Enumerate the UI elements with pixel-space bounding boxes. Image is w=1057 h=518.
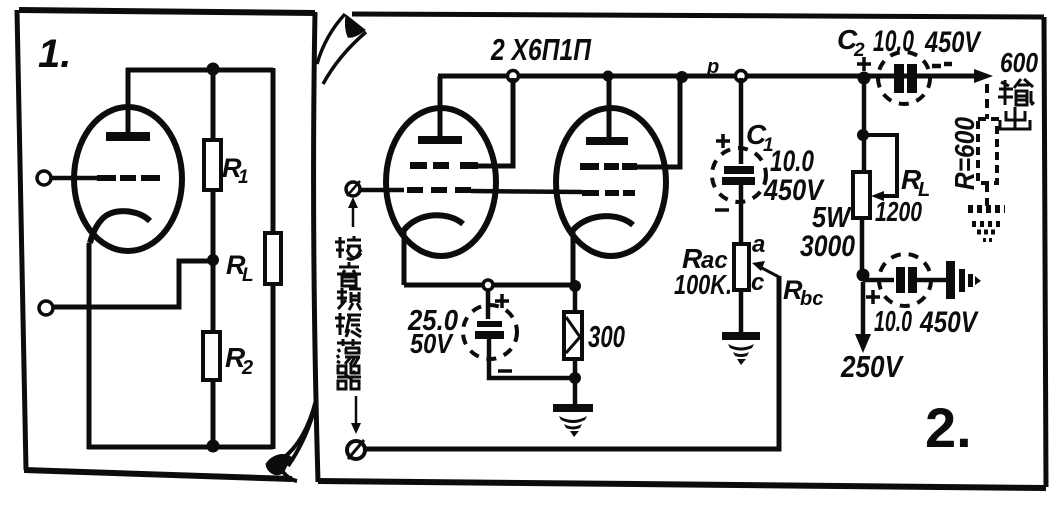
svg-text:p: p xyxy=(706,56,719,78)
tube U2 grid dashes xyxy=(582,190,635,196)
tube V1 grid dashes xyxy=(97,175,160,181)
svg-text:10.0: 10.0 xyxy=(874,306,912,338)
resistor RL (panel1) xyxy=(265,233,281,284)
wire U1 screen lead xyxy=(476,78,513,166)
wire R1 column xyxy=(211,70,216,447)
wire U2 screen lead xyxy=(636,79,680,167)
wire U1 plate lead xyxy=(438,76,443,136)
potentiometer Rac xyxy=(734,244,749,290)
svg-text:10.0: 10.0 xyxy=(873,25,914,58)
CURLBOTTOM xyxy=(266,400,316,481)
wire U2 plate lead xyxy=(607,76,612,137)
tube U1 grid dashes xyxy=(407,187,471,193)
svg-text:bc: bc xyxy=(800,288,823,310)
tube U1 plate xyxy=(418,136,462,144)
svg-text:1.: 1. xyxy=(38,32,71,76)
load R=600 dashed xyxy=(985,84,989,119)
tube U2 envelope xyxy=(556,108,666,256)
wire grid input xyxy=(360,188,404,193)
node panel1 bottom junction xyxy=(207,440,220,453)
wire V1 cathode lead xyxy=(87,243,92,449)
minus C1 xyxy=(715,208,729,212)
svg-text:2: 2 xyxy=(241,357,253,379)
tube U2 plate xyxy=(586,137,628,145)
plus cathode cap xyxy=(495,294,509,308)
minus cathode cap xyxy=(498,369,512,373)
tube U2 screen dashes xyxy=(580,163,637,170)
svg-text:100K.: 100K. xyxy=(674,269,732,300)
node RL tap xyxy=(207,254,219,266)
chassis output cap xyxy=(946,261,981,299)
capacitor 25.0 50V xyxy=(486,289,491,319)
wire lower input xyxy=(53,261,213,307)
ground cathode xyxy=(553,404,593,437)
arrow to bottom terminal xyxy=(355,396,358,426)
label shu chu xyxy=(998,79,1034,129)
wire right column xyxy=(271,68,276,449)
tube V1 cathode xyxy=(90,211,150,243)
tube V1 plate xyxy=(106,132,150,141)
svg-text:50V: 50V xyxy=(410,328,454,359)
label jie yin pin zhen dang qi xyxy=(335,236,361,389)
svg-text:2 Х6П1П: 2 Х6П1П xyxy=(490,32,591,67)
resistor 300 xyxy=(573,286,578,312)
terminal input grid xyxy=(37,171,51,185)
node cathode cap ring xyxy=(483,280,493,290)
ground load dotted xyxy=(968,209,1005,240)
svg-text:a: a xyxy=(752,231,765,258)
arrow to top terminal xyxy=(352,204,355,227)
CURLTOP xyxy=(317,14,366,84)
svg-text:R=600: R=600 xyxy=(949,117,980,190)
wire V1 plate lead xyxy=(126,68,131,132)
wire grid lead xyxy=(51,176,99,181)
resistor R2 xyxy=(203,332,220,380)
plus C2 xyxy=(857,57,871,71)
svg-text:2.: 2. xyxy=(925,396,972,459)
node RL top xyxy=(857,129,869,141)
terminal oscillator top xyxy=(346,182,360,196)
node screen1 ring xyxy=(508,71,519,82)
tube U1 envelope xyxy=(386,108,496,256)
svg-text:1200: 1200 xyxy=(875,196,922,227)
svg-text:1: 1 xyxy=(238,167,249,188)
svg-text:L: L xyxy=(242,265,254,286)
wire panel1 top xyxy=(126,68,273,73)
wire feedback bottom xyxy=(365,276,779,449)
node output cap junction xyxy=(857,269,870,282)
rheostat RL branch xyxy=(862,78,867,172)
plus C1 xyxy=(716,134,730,148)
node plate2 xyxy=(603,71,614,82)
tube V1 envelope xyxy=(74,107,182,251)
node cathode resistor bottom xyxy=(569,372,581,384)
wire B+ bus xyxy=(438,74,976,79)
wire cathode bus xyxy=(404,283,575,288)
minus C2 xyxy=(932,64,952,66)
svg-text:450V: 450V xyxy=(924,26,982,59)
node panel1 top junction xyxy=(207,63,220,76)
resistor R1 xyxy=(204,140,221,190)
wire panel1 bottom xyxy=(87,445,273,450)
tube U1 cathode xyxy=(404,215,463,230)
tube U2 cathode xyxy=(573,216,633,230)
PANEL1FRAME xyxy=(17,10,318,482)
ground Rac xyxy=(739,290,744,334)
svg-text:3000: 3000 xyxy=(800,230,855,263)
wire grid link U1-U2 xyxy=(471,191,582,192)
capacitor C2 xyxy=(894,64,904,93)
node screen2 xyxy=(676,71,688,83)
PANEL2FRAME xyxy=(318,14,1046,488)
plus output cap xyxy=(866,290,880,304)
node C2 branch xyxy=(858,72,871,85)
supply 250V arrow xyxy=(861,282,866,336)
svg-text:c: c xyxy=(751,269,764,296)
wiper Rac arrow xyxy=(758,266,779,277)
tube U1 screen dashes xyxy=(410,162,478,169)
node C1 branch ring xyxy=(736,71,747,82)
resistor RL 1200 xyxy=(853,172,870,218)
node cathode resistor top xyxy=(569,280,581,292)
wire U2 cathode lead xyxy=(571,228,576,286)
svg-text:450V: 450V xyxy=(919,306,979,339)
terminal oscillator bottom xyxy=(347,441,365,459)
wire RL wiper loop xyxy=(863,135,897,196)
wire U1 cathode lead xyxy=(402,228,407,285)
svg-text:300: 300 xyxy=(588,319,625,354)
terminal input cathode xyxy=(39,301,53,315)
svg-text:2: 2 xyxy=(853,40,865,61)
capacitor C1 xyxy=(739,78,744,164)
capacitor output 10.0 450V xyxy=(863,278,894,283)
output arrowhead xyxy=(974,69,993,83)
svg-text:250V: 250V xyxy=(840,349,904,384)
svg-text:600: 600 xyxy=(1000,47,1038,78)
